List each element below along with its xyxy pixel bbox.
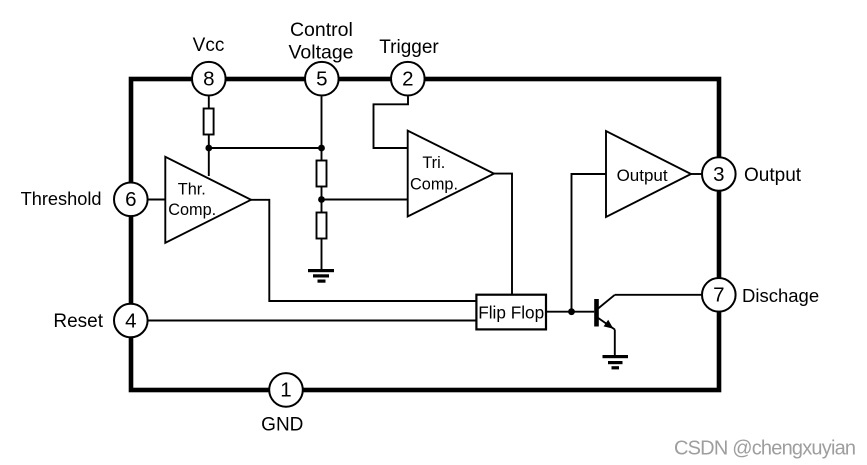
wire Tri.Comp output to Flip Flop top — [494, 174, 512, 295]
wire node A to node B horizontal — [209, 147, 322, 149]
wire node A to Thr.Comp top input — [208, 148, 210, 176]
svg-text:Control: Control — [290, 19, 353, 41]
svg-text:Output: Output — [744, 165, 802, 186]
svg-text:Voltage: Voltage — [288, 42, 353, 64]
wire node C to resistor R3 — [321, 200, 323, 214]
wire pin5 down through node B to resistor R2 — [321, 97, 323, 162]
svg-text:Reset: Reset — [53, 311, 103, 332]
op-amp U2 Tri. Comp. triangle — [408, 131, 494, 217]
transistor Q1 emitter line with arrow — [598, 318, 615, 330]
wire pin2 trigger to Tri.Comp upper input — [374, 97, 409, 149]
svg-text:Tri.: Tri. — [422, 154, 445, 172]
wire R1 to node A — [208, 135, 210, 149]
wire R3 to ground — [321, 239, 323, 270]
flip flop box — [476, 295, 546, 330]
wire R2 to node C — [321, 187, 323, 200]
wire Thr.Comp output to Flip Flop — [251, 200, 476, 301]
wire pin6 to Thr.Comp input — [149, 199, 166, 201]
svg-text:8: 8 — [203, 68, 214, 91]
svg-text:7: 7 — [713, 284, 724, 307]
svg-text:Flip Flop: Flip Flop — [478, 302, 544, 322]
pin 4 circle — [114, 304, 148, 338]
svg-text:Trigger: Trigger — [379, 37, 439, 58]
pin 3 circle — [702, 157, 736, 191]
wire node C to Tri.Comp lower input — [322, 199, 408, 201]
svg-text:2: 2 — [402, 68, 413, 91]
svg-text:Output: Output — [617, 166, 668, 185]
svg-text:6: 6 — [125, 188, 136, 211]
svg-text:Comp.: Comp. — [410, 175, 458, 193]
node B junction dot — [318, 145, 325, 152]
ground (voltage divider) — [308, 269, 334, 283]
svg-text:Thr.: Thr. — [178, 181, 206, 199]
op-amp U1 Thr. Comp. triangle — [165, 157, 251, 243]
svg-text:3: 3 — [713, 163, 724, 186]
svg-text:GND: GND — [261, 414, 303, 435]
svg-text:1: 1 — [280, 379, 291, 402]
pin 8 circle — [192, 62, 226, 96]
op-amp U3 Output buffer triangle — [606, 131, 691, 217]
svg-text:Comp.: Comp. — [168, 201, 216, 219]
resistor R2 — [317, 161, 327, 187]
svg-text:Vcc: Vcc — [193, 35, 225, 56]
transistor Q1 base bar — [594, 299, 599, 327]
pin 7 circle — [702, 278, 736, 312]
svg-text:Dischage: Dischage — [742, 285, 819, 306]
svg-text:4: 4 — [125, 309, 136, 332]
transistor Q1 collector line — [598, 295, 615, 309]
pin 5 circle — [305, 62, 339, 96]
ground (transistor emitter) — [603, 355, 629, 369]
wire Flip Flop output to transistor base — [546, 311, 594, 313]
wire node D up to Output buffer input — [572, 174, 607, 312]
wire pin8 to resistor R1 — [208, 97, 210, 110]
node D junction dot — [568, 308, 575, 315]
IC body outline (thick rectangle) — [131, 79, 719, 390]
node A junction dot — [205, 145, 212, 152]
svg-text:5: 5 — [316, 68, 327, 91]
pin 2 circle — [391, 62, 425, 96]
resistor R3 — [317, 213, 327, 239]
wire Output buffer to pin3 — [691, 173, 701, 175]
wire pin4 reset to Flip Flop — [149, 320, 477, 322]
resistor R1 — [204, 109, 214, 135]
svg-text:Threshold: Threshold — [21, 189, 102, 209]
pin 6 circle — [114, 183, 148, 217]
pin 1 circle — [269, 373, 303, 407]
wire collector to pin7 — [615, 294, 702, 296]
wire emitter down to ground — [614, 330, 616, 356]
node C junction dot — [318, 196, 325, 203]
svg-text:CSDN @chengxuyian: CSDN @chengxuyian — [674, 437, 855, 459]
